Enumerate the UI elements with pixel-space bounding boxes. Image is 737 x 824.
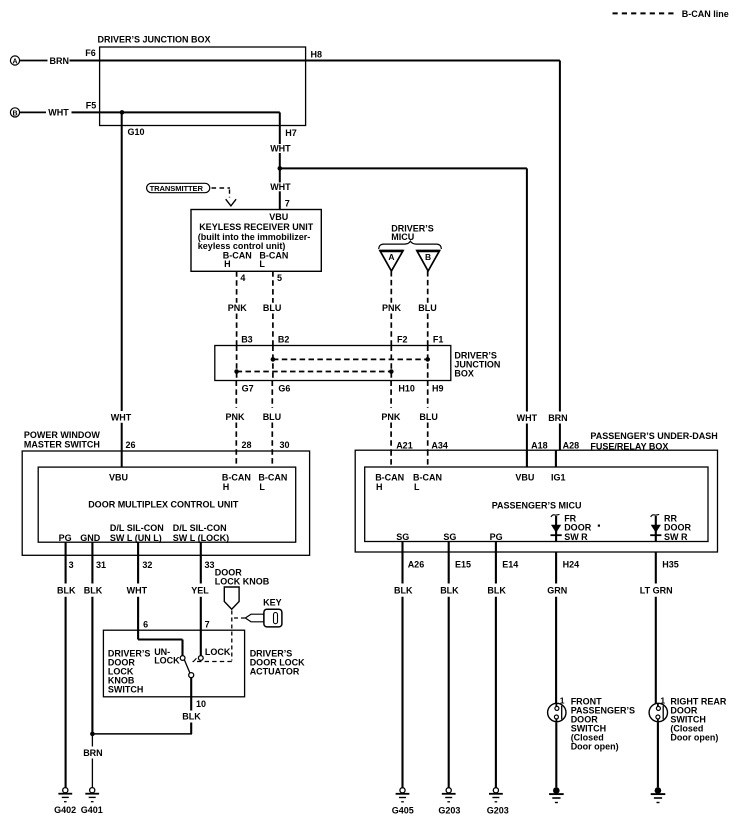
ground G401 <box>81 788 103 815</box>
brace over MICU connectors <box>379 241 442 249</box>
junction dot F2 bus <box>389 369 394 374</box>
switch pole <box>189 673 194 678</box>
wire BRN vertical to A28 <box>548 61 568 451</box>
svg-text:6: 6 <box>143 620 148 630</box>
svg-text:ACTUATOR: ACTUATOR <box>250 667 300 677</box>
legend B-CAN line <box>613 9 729 19</box>
svg-text:A34: A34 <box>431 441 448 451</box>
svg-text:G203: G203 <box>487 806 509 816</box>
svg-text:4: 4 <box>240 273 245 283</box>
svg-text:32: 32 <box>142 560 152 570</box>
svg-text:E14: E14 <box>502 559 518 569</box>
svg-text:PASSENGER’S UNDER-DASH: PASSENGER’S UNDER-DASH <box>590 431 717 441</box>
wire WHT from node B <box>20 108 280 118</box>
svg-text:KEY: KEY <box>263 597 282 607</box>
svg-text:G401: G401 <box>81 805 103 815</box>
wire dashed vertical through box F2-H10 <box>390 346 392 381</box>
junction dot B3 bus <box>234 369 239 374</box>
svg-text:KEYLESS RECEIVER UNIT: KEYLESS RECEIVER UNIT <box>199 222 314 232</box>
svg-text:VBU: VBU <box>269 212 288 222</box>
svg-text:28: 28 <box>242 440 252 450</box>
svg-text:A18: A18 <box>531 441 548 451</box>
door lock knob icon <box>224 587 239 609</box>
MICU connector B triangle <box>417 251 440 271</box>
svg-text:A: A <box>12 58 17 65</box>
svg-text:30: 30 <box>280 440 290 450</box>
svg-text:VBU: VBU <box>515 472 534 482</box>
passenger's MICU inner box <box>365 467 708 542</box>
svg-text:H24: H24 <box>563 559 580 569</box>
svg-text:B-CAN: B-CAN <box>413 472 442 482</box>
svg-text:GND: GND <box>80 533 101 543</box>
svg-text:DOOR: DOOR <box>564 523 592 533</box>
svg-text:A26: A26 <box>408 559 425 569</box>
junction dot F1 bus <box>425 357 430 362</box>
node B connector circle <box>10 108 19 118</box>
svg-text:BLU: BLU <box>419 412 438 422</box>
wire PNK dashed H10 to A21 <box>381 381 401 451</box>
svg-text:POWER WINDOW: POWER WINDOW <box>24 430 100 440</box>
svg-text:PG: PG <box>59 533 72 543</box>
junction dot G10 branch <box>120 110 125 115</box>
right rear door switch <box>649 696 727 743</box>
B-CAN H bus dashed inside junction box <box>237 371 392 373</box>
wire B-CAN H dashed pin4 to B3 <box>228 271 248 345</box>
svg-text:WHT: WHT <box>517 413 538 423</box>
svg-text:E15: E15 <box>455 559 471 569</box>
wire dashed A21 to B-CAN H <box>390 450 392 467</box>
svg-text:5: 5 <box>277 273 282 283</box>
svg-text:DRIVER’S JUNCTION BOX: DRIVER’S JUNCTION BOX <box>98 35 211 45</box>
svg-text:B3: B3 <box>241 335 253 345</box>
svg-text:A28: A28 <box>563 441 580 451</box>
MICU connector A triangle <box>380 251 403 271</box>
svg-text:YEL: YEL <box>191 585 209 595</box>
wire PNK dashed MICU A to F2 <box>382 271 402 346</box>
svg-text:H9: H9 <box>432 384 444 394</box>
B-CAN L bus dashed inside junction box <box>273 358 428 360</box>
mechanical linkage dashed knob/key to lock <box>193 611 246 662</box>
wire BLK pin 10 to junction <box>92 678 201 734</box>
door lock knob label <box>215 568 270 587</box>
svg-text:LT GRN: LT GRN <box>640 585 673 595</box>
junction dot on WHT wire <box>278 166 283 171</box>
front passenger's door switch <box>548 696 635 752</box>
wire WHT branch to A18 <box>280 168 538 450</box>
switch contact UN-LOCK <box>154 647 185 666</box>
wire PNK dashed G7 to pin 28 <box>226 381 246 468</box>
svg-text:G402: G402 <box>54 805 76 815</box>
svg-text:BLU: BLU <box>263 303 282 313</box>
svg-text:PNK: PNK <box>381 412 401 422</box>
svg-text:G10: G10 <box>128 127 145 137</box>
svg-text:WHT: WHT <box>270 182 291 192</box>
svg-text:SW L (LOCK): SW L (LOCK) <box>173 533 229 543</box>
wire A28 to IG1 <box>555 450 557 467</box>
svg-text:DOOR: DOOR <box>664 523 692 533</box>
svg-text:B: B <box>12 110 17 117</box>
svg-text:H: H <box>223 482 230 492</box>
svg-text:SW R: SW R <box>564 532 588 542</box>
passenger's under-dash fuse/relay box <box>355 431 718 552</box>
svg-text:H10: H10 <box>398 384 415 394</box>
ground body right rear door switch <box>651 787 666 802</box>
wire front door switch to ground <box>555 722 557 787</box>
ground G203 first <box>438 788 460 816</box>
svg-text:3: 3 <box>69 560 74 570</box>
wire B-CAN L dashed pin5 to B2 <box>263 271 282 345</box>
wire LT GRN H35 to right rear door switch <box>640 552 673 704</box>
node A connector circle <box>10 56 19 66</box>
svg-text:BOX: BOX <box>454 369 474 379</box>
RR door switch driver symbol <box>650 514 691 543</box>
svg-text:10: 10 <box>196 699 206 709</box>
svg-text:PNK: PNK <box>226 412 246 422</box>
wire right rear door switch to ground <box>657 722 659 787</box>
svg-text:BRN: BRN <box>50 56 70 66</box>
svg-text:H35: H35 <box>662 559 679 569</box>
key icon <box>245 597 282 627</box>
svg-text:A21: A21 <box>396 441 413 451</box>
svg-text:BLK: BLK <box>182 712 201 722</box>
svg-text:F5: F5 <box>86 101 97 111</box>
wire BLK E15 to G203 <box>440 542 459 788</box>
svg-text:F2: F2 <box>397 335 408 345</box>
svg-text:B-CAN: B-CAN <box>258 472 287 482</box>
junction dot BRN <box>90 732 95 737</box>
svg-text:H7: H7 <box>285 128 297 138</box>
svg-text:BRN: BRN <box>83 748 103 758</box>
svg-text:WHT: WHT <box>270 144 291 154</box>
svg-text:H8: H8 <box>311 50 323 60</box>
wire dashed A34 to B-CAN L <box>427 450 429 467</box>
svg-text:A: A <box>388 252 394 262</box>
svg-text:SW R: SW R <box>664 532 688 542</box>
svg-text:B-CAN: B-CAN <box>375 472 404 482</box>
svg-text:WHT: WHT <box>48 108 69 118</box>
svg-text:F6: F6 <box>85 48 96 58</box>
svg-text:SG: SG <box>396 532 409 542</box>
ground body front door switch <box>549 787 564 802</box>
svg-text:GRN: GRN <box>547 585 567 595</box>
svg-text:MICU: MICU <box>391 232 414 242</box>
svg-text:L: L <box>259 259 265 269</box>
wire BLU dashed H9 to A34 <box>419 381 438 451</box>
svg-text:26: 26 <box>126 440 136 450</box>
svg-text:B2: B2 <box>278 335 290 345</box>
door multiplex control unit <box>38 467 296 543</box>
svg-text:33: 33 <box>205 560 215 570</box>
wire GRN H24 to front passenger door switch <box>547 552 567 704</box>
svg-text:B: B <box>425 252 431 262</box>
driver's junction box 1 <box>98 35 306 126</box>
driver's door lock actuator box <box>103 630 305 697</box>
driver's junction box 2 <box>215 346 501 381</box>
svg-text:D/L SIL-CON: D/L SIL-CON <box>110 523 164 533</box>
wire dashed vertical through box B2-G6 <box>272 346 274 381</box>
svg-text:BLU: BLU <box>418 303 437 313</box>
svg-text:VBU: VBU <box>109 472 128 482</box>
svg-text:BRN: BRN <box>548 413 568 423</box>
svg-text:H: H <box>224 259 231 269</box>
FR door switch driver symbol <box>551 514 601 543</box>
switch contact LOCK <box>198 647 230 660</box>
wire BLU dashed MICU B to F1 <box>418 271 437 346</box>
wire YEL pin 33 to actuator pin 7 <box>191 542 209 656</box>
transmitter <box>147 183 237 206</box>
svg-text:L: L <box>259 482 265 492</box>
svg-text:7: 7 <box>285 199 290 209</box>
wire WHT vertical G10 to pin 26 <box>111 112 132 467</box>
svg-text:LOCK: LOCK <box>205 647 231 657</box>
svg-text:L: L <box>414 482 420 492</box>
svg-text:MASTER SWITCH: MASTER SWITCH <box>24 440 100 450</box>
svg-text:PASSENGER’S MICU: PASSENGER’S MICU <box>492 501 582 511</box>
wire BLK pin 31 to junction <box>84 542 103 735</box>
svg-text:PG: PG <box>490 532 503 542</box>
wire BLK pin 3 to G402 <box>57 542 76 787</box>
svg-text:G7: G7 <box>242 384 254 394</box>
wire dashed vertical through box B3-G7 <box>236 346 238 381</box>
wire BRN from node A <box>20 56 560 66</box>
svg-text:SW L (UN L): SW L (UN L) <box>110 533 162 543</box>
svg-text:TRANSMITTER: TRANSMITTER <box>150 184 204 193</box>
svg-text:IG1: IG1 <box>551 472 566 482</box>
svg-text:PNK: PNK <box>228 303 248 313</box>
wire BRN to G401 <box>83 735 103 788</box>
wire WHT pin 32 to actuator pin 6 <box>127 542 183 656</box>
svg-text:G405: G405 <box>392 806 414 816</box>
svg-text:DOOR MULTIPLEX CONTROL UNIT: DOOR MULTIPLEX CONTROL UNIT <box>88 499 239 509</box>
svg-text:LOCK KNOB: LOCK KNOB <box>215 577 270 587</box>
svg-text:BLK: BLK <box>394 585 413 595</box>
power window master switch box <box>22 430 309 555</box>
svg-text:SG: SG <box>443 532 456 542</box>
svg-text:SWITCH: SWITCH <box>108 684 143 694</box>
driver's door lock knob switch label <box>108 648 151 694</box>
svg-text:WHT: WHT <box>111 413 132 423</box>
svg-text:LOCK: LOCK <box>154 656 180 666</box>
svg-text:7: 7 <box>205 620 210 630</box>
svg-text:F1: F1 <box>433 335 444 345</box>
svg-text:BLK: BLK <box>487 585 506 595</box>
svg-text:BLK: BLK <box>440 585 459 595</box>
driver's MICU label <box>391 223 434 242</box>
svg-text:BLU: BLU <box>263 412 282 422</box>
svg-text:Door open): Door open) <box>571 741 619 751</box>
wire WHT vertical H7 to keyless receiver <box>270 112 291 209</box>
junction dot B2 bus <box>271 357 276 362</box>
switch arm <box>184 660 189 673</box>
wire BLU dashed G6 to pin 30 <box>263 381 282 468</box>
svg-text:BLK: BLK <box>57 585 76 595</box>
svg-text:PNK: PNK <box>382 303 402 313</box>
svg-text:Door open): Door open) <box>670 732 718 742</box>
svg-text:G203: G203 <box>438 806 460 816</box>
svg-text:WHT: WHT <box>127 585 148 595</box>
svg-text:B-CAN: B-CAN <box>222 472 251 482</box>
svg-text:H: H <box>376 482 383 492</box>
ground G405 <box>392 788 414 816</box>
wire BLK E14 to G203 <box>487 542 506 788</box>
svg-text:31: 31 <box>96 560 106 570</box>
ground G203 second <box>487 788 509 816</box>
wire A18 to VBU <box>526 450 528 467</box>
wire BLK A26 to G405 <box>394 542 413 788</box>
ground G402 <box>54 788 76 815</box>
keyless receiver unit U-keyless <box>191 210 321 272</box>
svg-text:B-CAN line: B-CAN line <box>682 9 729 19</box>
svg-text:D/L SIL-CON: D/L SIL-CON <box>173 523 227 533</box>
wire dashed vertical through box F1-H9 <box>427 346 429 381</box>
svg-text:BLK: BLK <box>84 585 103 595</box>
svg-text:G6: G6 <box>278 384 290 394</box>
